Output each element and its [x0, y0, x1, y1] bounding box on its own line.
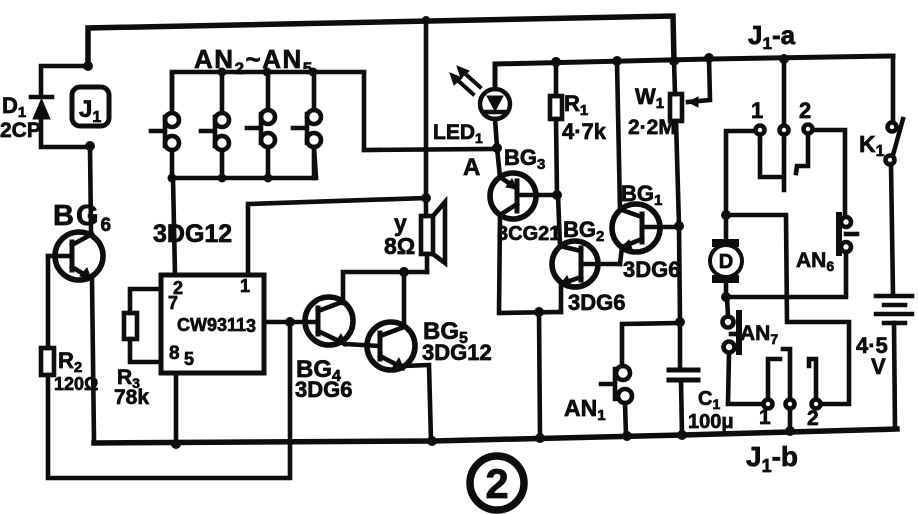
svg-text:120Ω: 120Ω [54, 374, 98, 394]
junction pin3/feedback node [285, 317, 295, 327]
transistor BG5 [367, 322, 415, 370]
figure number circled 2 [470, 456, 524, 510]
transistor BG6 [48, 232, 103, 280]
motor D [710, 215, 742, 297]
junction R1 top node [551, 57, 561, 67]
wire BG5 emitter to ground [403, 365, 431, 441]
junction BG1 base node [674, 221, 684, 231]
wire BG1 emitter to BG2 base [620, 247, 622, 264]
junction top line speaker tap [422, 16, 430, 24]
switch AN6 [839, 215, 857, 253]
svg-text:1: 1 [759, 406, 771, 429]
wire IC pin 1 to speaker node [248, 198, 426, 275]
svg-text:5: 5 [184, 349, 194, 369]
wire top supply line [88, 16, 674, 66]
LED LED1 [450, 64, 510, 147]
svg-text:3DG12: 3DG12 [422, 340, 492, 365]
wire BG1 collector to rail [617, 62, 622, 210]
relay contacts J1-b [764, 349, 821, 431]
svg-text:2: 2 [799, 98, 811, 123]
svg-text:2·2M: 2·2M [628, 116, 676, 139]
svg-text:8Ω: 8Ω [384, 233, 415, 259]
junction motor bottom node [721, 292, 731, 302]
transistor BG4 [305, 297, 353, 345]
wire R2 to feedback node [48, 324, 290, 478]
node A junction [492, 143, 502, 153]
wire R3 to IC pin 8 [130, 339, 161, 362]
junction speaker top node [421, 193, 431, 203]
junction BG1 collector rail node [612, 56, 622, 66]
wire AN bus to IC pin 2 [173, 178, 175, 275]
svg-text:V: V [871, 354, 886, 379]
svg-text:1: 1 [751, 98, 763, 123]
junction J1 bottom node [85, 141, 95, 151]
junction W1 top node [669, 56, 679, 66]
svg-text:2CP: 2CP [0, 119, 41, 142]
resistor R2 [41, 348, 54, 375]
junction BG3 base node [552, 190, 562, 200]
junction BG5 ground node [427, 436, 437, 446]
svg-text:J1-a: J1-a [748, 20, 796, 53]
wire contact route to J1-b contact 2 [726, 215, 849, 404]
diode D1 [31, 97, 52, 119]
wire emitter node to ground bus [539, 312, 540, 438]
switch AN7 [723, 297, 740, 353]
wire AN top bus to node A [172, 72, 494, 150]
wire D1 branch [41, 66, 90, 147]
svg-text:A: A [463, 154, 480, 181]
second supply rail wire [495, 56, 893, 89]
pushbutton AN5 [293, 72, 321, 178]
wire motor bottom to AN6 [726, 252, 846, 297]
junction speaker bottom node [399, 267, 409, 277]
svg-text:AN2~AN5: AN2~AN5 [194, 44, 314, 78]
svg-text:8: 8 [169, 343, 180, 364]
junction IC ground node [171, 439, 181, 449]
wire IC pin 3 to BG4 base [264, 320, 317, 325]
speaker Y [421, 202, 445, 272]
wire AN bottom bus [172, 147, 316, 178]
ground bus wire [94, 429, 897, 443]
svg-text:78k: 78k [114, 386, 149, 409]
svg-text:J1-b: J1-b [746, 441, 798, 476]
junction C1/AN1 node [675, 317, 685, 327]
resistor R1 [550, 62, 562, 195]
svg-text:2: 2 [485, 460, 508, 507]
junction dots AN bottom bus [168, 174, 273, 183]
junction AN1 ground node [622, 431, 632, 441]
transistor BG1 [612, 204, 679, 252]
wire BG6 emitter to ground bus [92, 280, 94, 441]
pushbutton AN4 [247, 72, 275, 178]
svg-text:D: D [719, 251, 733, 273]
wire BG1 base node to C1 node [679, 226, 680, 322]
svg-text:3DG12: 3DG12 [153, 220, 232, 248]
svg-text:3DG6: 3DG6 [623, 257, 680, 282]
IC U1 CW9311 box [161, 275, 264, 373]
wire IC pin 7 to R3 [130, 289, 161, 313]
wire supply to speaker vertical [424, 19, 429, 216]
transistor BG2 [552, 241, 620, 312]
svg-text:100μ: 100μ [688, 411, 734, 433]
transistor BG3 [490, 148, 557, 219]
svg-text:3DG6: 3DG6 [295, 377, 352, 402]
svg-text:3: 3 [246, 316, 256, 336]
wire AN7 to J1-b contact 1 [728, 353, 763, 404]
junction supply/J1 node [83, 61, 93, 71]
svg-text:4·7k: 4·7k [562, 119, 607, 144]
wire contact 2 to AN6 [813, 130, 845, 217]
junction ground node [535, 433, 545, 443]
svg-text:2: 2 [807, 407, 819, 430]
junction motor top node [721, 210, 731, 220]
relay contacts J1-a [756, 59, 813, 190]
pushbutton AN2 [151, 74, 179, 178]
wire IC pin 5 to ground bus [174, 373, 179, 444]
wire contact 1 to motor top [726, 131, 755, 215]
switch K1 [886, 56, 904, 295]
svg-text:7: 7 [168, 293, 178, 313]
relay coil J1 [72, 87, 109, 126]
wire BG5 collector [402, 272, 407, 327]
battery 4.5V [876, 296, 912, 429]
wire BG4 collector to speaker bottom [343, 272, 427, 303]
svg-text:3CG21: 3CG21 [497, 223, 560, 245]
junction C1 ground node [677, 430, 687, 440]
junction W1 wiper rail node [704, 53, 714, 63]
pushbutton AN1 [601, 323, 680, 436]
wire J1 to BG6 collector [90, 146, 91, 232]
wire BG4 emitter to BG5 base [345, 344, 379, 346]
junction BG2 emitter node [534, 307, 544, 317]
capacitor C1 [669, 322, 698, 435]
junction dots AN top bus [218, 68, 318, 77]
svg-text:CW9311: CW9311 [177, 315, 246, 335]
svg-text:3DG6: 3DG6 [568, 290, 625, 315]
wire BG3 collector to BG2 emitter [499, 215, 561, 313]
pushbutton AN3 [201, 72, 229, 178]
svg-text:1: 1 [240, 276, 250, 296]
potentiometer W1 [670, 58, 710, 226]
junction J1-b pole ground node [785, 426, 795, 436]
wire BG2 collector to base node [558, 195, 560, 246]
junction J1-a rail node [779, 54, 789, 64]
resistor R3 [124, 313, 137, 339]
wire BG6 base to R2 [46, 256, 51, 348]
